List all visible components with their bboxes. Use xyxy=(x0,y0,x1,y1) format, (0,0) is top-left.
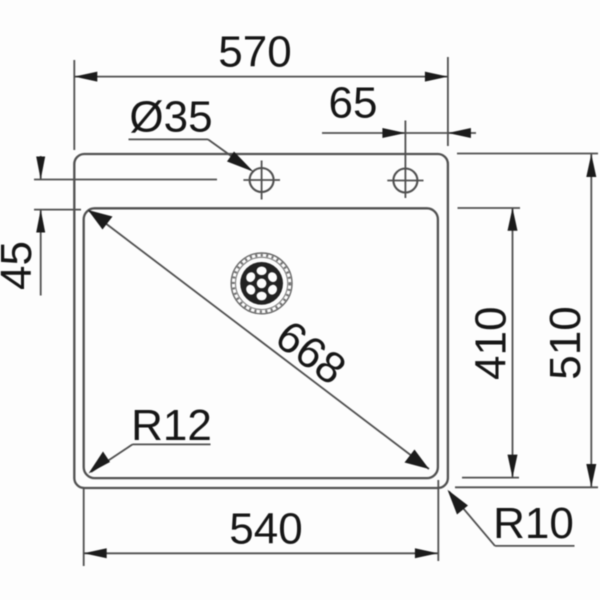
knurled outer ring xyxy=(231,253,292,314)
tap hole right crosshair xyxy=(387,180,423,182)
65 left arrow (points right) xyxy=(382,128,405,138)
R12 leader diagonal xyxy=(91,444,133,472)
45 dim lower extension line xyxy=(34,209,81,211)
basin diagonal 668 xyxy=(88,210,429,469)
drain strainer xyxy=(231,253,292,314)
510 dim extension lines xyxy=(457,153,598,155)
R12 leader underline xyxy=(133,443,211,445)
svg-text:540: 540 xyxy=(229,505,302,554)
sink outer rim rectangle xyxy=(74,154,448,488)
45 bottom arrow (points up) xyxy=(36,210,45,233)
R10 leader diagonal xyxy=(449,492,495,546)
diagonal bottom arrow xyxy=(405,450,430,470)
tap hole right circle xyxy=(393,169,417,193)
570 dimension line xyxy=(74,76,448,78)
svg-text:65: 65 xyxy=(329,79,378,128)
410 top arrow xyxy=(508,208,518,231)
svg-text:410: 410 xyxy=(466,307,515,380)
570 dim extension lines xyxy=(73,60,75,150)
svg-text:R12: R12 xyxy=(131,401,212,450)
R10 leader underline xyxy=(495,545,575,547)
410 dim extension lines xyxy=(458,207,521,209)
tap hole left circle xyxy=(250,168,274,192)
45 dimension line upper part xyxy=(40,156,42,180)
540 right arrow xyxy=(415,548,438,558)
R12 leader arrow xyxy=(89,452,111,474)
Ø35 leader underline xyxy=(129,138,209,140)
510 top arrow xyxy=(586,154,596,177)
R10 leader arrow xyxy=(448,490,469,515)
540 dimension line xyxy=(84,552,438,554)
arrowheads xyxy=(36,72,596,559)
svg-text:R10: R10 xyxy=(493,499,574,548)
45 top arrow (points down) xyxy=(36,157,45,180)
sink basin inner rectangle xyxy=(84,208,438,478)
svg-text:Ø35: Ø35 xyxy=(129,93,212,142)
65 dimension line xyxy=(322,132,476,134)
Ø35 leader diagonal xyxy=(208,139,250,169)
65 right arrow (points left) xyxy=(448,128,471,138)
570 left arrow xyxy=(74,72,97,82)
svg-text:570: 570 xyxy=(218,28,291,77)
540 left arrow xyxy=(84,548,107,558)
410 dimension line xyxy=(512,208,514,478)
540 dim extension lines xyxy=(83,488,85,567)
45 dimension line lower part xyxy=(40,210,42,296)
Ø35 leader arrow xyxy=(227,152,254,172)
svg-text:45: 45 xyxy=(0,241,41,290)
510 dimension line xyxy=(590,154,592,487)
510 bottom arrow xyxy=(586,464,596,487)
tap hole left crosshair xyxy=(243,179,280,181)
570 right arrow xyxy=(425,72,448,82)
410 bottom arrow xyxy=(508,455,518,478)
strainer wheel xyxy=(240,262,283,305)
svg-text:510: 510 xyxy=(541,306,590,379)
diagonal top arrow xyxy=(88,210,113,230)
tap hole centerline (left) xyxy=(34,179,217,181)
svg-text:668: 668 xyxy=(267,311,355,394)
